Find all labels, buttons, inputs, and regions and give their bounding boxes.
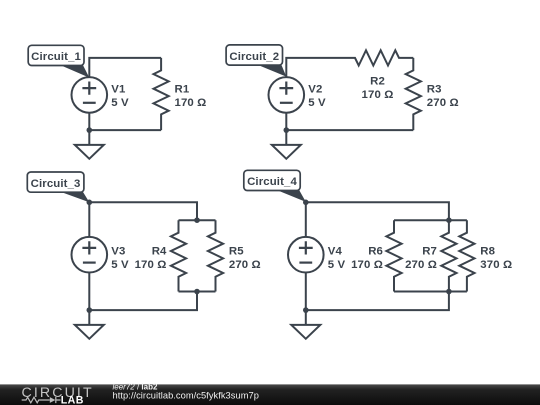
- svg-text:R2: R2: [370, 75, 385, 87]
- svg-text:Circuit_1: Circuit_1: [31, 51, 81, 63]
- svg-text:Circuit_4: Circuit_4: [247, 176, 297, 188]
- ground circuit3: [75, 310, 104, 339]
- wire circuit3 top rail: [89, 202, 197, 220]
- svg-text:5 V: 5 V: [111, 97, 129, 109]
- svg-text:270 Ω: 270 Ω: [427, 97, 459, 109]
- node circuit3 parallel bottom node: [194, 289, 200, 295]
- wire circuit3 source leads: [88, 202, 90, 310]
- svg-text:R6: R6: [368, 245, 383, 257]
- node circuit3 parallel top node: [194, 217, 200, 223]
- svg-text:V4: V4: [328, 245, 343, 257]
- wire circuit4 parallel bars: [394, 220, 467, 291]
- wire circuit2 top: [286, 58, 342, 77]
- node circuit3 ground node: [87, 307, 93, 313]
- svg-text:170 Ω: 170 Ω: [135, 259, 167, 271]
- svg-text:R7: R7: [422, 245, 437, 257]
- label flag Circuit_1: [28, 45, 89, 77]
- resistor R3: [406, 58, 421, 130]
- resistor R7: [441, 220, 456, 291]
- label flag Circuit_3: [27, 172, 89, 202]
- svg-text:R3: R3: [427, 83, 442, 95]
- wire circuit4 source leads: [305, 202, 307, 310]
- footer bar: [0, 384, 540, 405]
- svg-text:5 V: 5 V: [328, 259, 346, 271]
- svg-text:V1: V1: [111, 83, 126, 95]
- svg-text:270 Ω: 270 Ω: [405, 259, 437, 271]
- resistor R4: [171, 220, 186, 291]
- node circuit4 ground node: [303, 307, 309, 313]
- ground circuit2: [272, 130, 301, 159]
- wire circuit1 top: [89, 58, 161, 77]
- svg-text:270 Ω: 270 Ω: [229, 259, 261, 271]
- svg-text:5 V: 5 V: [308, 97, 326, 109]
- svg-text:R1: R1: [175, 83, 190, 95]
- wire circuit1 bottom: [89, 113, 161, 130]
- node circuit4 top node: [303, 200, 309, 206]
- svg-text:170 Ω: 170 Ω: [362, 89, 394, 101]
- voltage source V2: [269, 77, 305, 113]
- node circuit2 ground node: [284, 127, 290, 133]
- ground circuit4: [291, 310, 320, 339]
- voltage source V1: [72, 77, 108, 113]
- resistor R5: [208, 220, 223, 291]
- label flag Circuit_2: [226, 45, 286, 77]
- wire circuit3 parallel bars: [179, 220, 216, 291]
- svg-text:V2: V2: [308, 83, 322, 95]
- svg-text:370 Ω: 370 Ω: [480, 259, 512, 271]
- svg-text:Circuit_3: Circuit_3: [31, 178, 81, 190]
- node circuit4 parallel top node: [446, 217, 452, 223]
- wire circuit2 bottom: [286, 113, 413, 130]
- wire circuit4 bottom rail: [306, 292, 449, 311]
- node circuit4 parallel bottom node: [446, 289, 452, 295]
- label flag Circuit_4: [244, 170, 306, 202]
- svg-text:R4: R4: [152, 245, 167, 257]
- voltage source V4: [288, 237, 324, 273]
- ground circuit1: [75, 130, 104, 159]
- resistor R1: [154, 58, 169, 130]
- wire circuit3 bottom rail: [89, 292, 197, 311]
- CircuitLab logo wire doodle (resistor + diode): [22, 397, 61, 403]
- resistor R6: [386, 220, 401, 291]
- resistor R2: [343, 50, 414, 65]
- svg-text:R8: R8: [480, 245, 495, 257]
- svg-text:Circuit_2: Circuit_2: [229, 51, 279, 63]
- svg-text:LAB: LAB: [61, 394, 84, 405]
- svg-text:170 Ω: 170 Ω: [175, 97, 207, 109]
- wire circuit4 top rail: [306, 202, 449, 220]
- resistor R8: [459, 220, 474, 291]
- svg-text:http://circuitlab.com/c5fykfk3: http://circuitlab.com/c5fykfk3sum7p: [113, 390, 259, 400]
- svg-text:R5: R5: [229, 245, 244, 257]
- svg-text:170 Ω: 170 Ω: [351, 259, 383, 271]
- node circuit3 top node: [87, 200, 93, 206]
- voltage source V3: [72, 237, 108, 273]
- svg-text:5 V: 5 V: [111, 259, 129, 271]
- node circuit1 ground node: [87, 127, 93, 133]
- svg-text:V3: V3: [111, 245, 125, 257]
